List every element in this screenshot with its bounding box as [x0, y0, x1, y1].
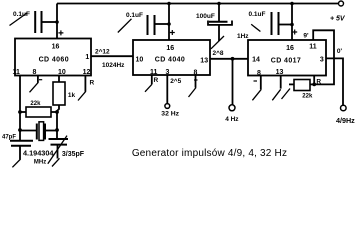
wire pin16 U3 — [291, 4, 293, 41]
svg-text:MHz: MHz — [34, 160, 46, 166]
node rail C3 electrolytic — [217, 2, 221, 6]
svg-text:2^5: 2^5 — [170, 77, 181, 85]
capacitor C5 47pF — [10, 140, 33, 142]
wire U2 pin3 to 32Hz — [166, 75, 168, 104]
node C2 junction — [167, 22, 171, 26]
capacitor C1 0.1uF — [34, 11, 36, 33]
svg-text:0': 0' — [337, 48, 343, 55]
svg-text:R: R — [90, 80, 95, 87]
plus mark U3 supply — [292, 30, 297, 35]
svg-text:4 Hz: 4 Hz — [225, 116, 239, 123]
wire U1 pin10 stub — [58, 76, 60, 83]
IC U1 CD4060 — [15, 39, 91, 76]
svg-text:10: 10 — [136, 57, 144, 64]
svg-text:16: 16 — [286, 45, 294, 52]
svg-text:1Hz: 1Hz — [237, 33, 249, 40]
svg-text:10: 10 — [58, 69, 66, 76]
wire U2 pin13 to U3 pin14 — [210, 58, 248, 60]
svg-text:11: 11 — [12, 69, 20, 76]
svg-text:100uF: 100uF — [196, 13, 215, 20]
svg-text:8: 8 — [32, 69, 36, 76]
ground U2 pin8 — [195, 75, 197, 88]
wire R1 bottom lead — [57, 105, 59, 112]
svg-text:+ 5V: + 5V — [330, 16, 346, 23]
svg-text:22k: 22k — [302, 94, 313, 100]
svg-text:14: 14 — [252, 57, 260, 64]
tap slash U2 reset — [145, 84, 152, 91]
node right crystal — [55, 128, 59, 132]
svg-text:1024Hz: 1024Hz — [102, 62, 125, 69]
svg-text:2^8: 2^8 — [213, 49, 224, 57]
tap slash U1 reset — [78, 91, 86, 100]
svg-text:13: 13 — [200, 57, 208, 64]
svg-text:3/35pF: 3/35pF — [62, 151, 85, 158]
wire U3 pin11 loop to reset — [313, 30, 334, 84]
svg-text:R: R — [154, 77, 159, 84]
svg-text:13: 13 — [276, 69, 284, 76]
capacitor C2 0.1uF — [147, 15, 149, 35]
ground C6 — [52, 158, 60, 166]
svg-text:Generator impulsów 4/9, 4, 32: Generator impulsów 4/9, 4, 32 Hz — [132, 148, 287, 159]
svg-text:2^12: 2^12 — [95, 48, 110, 56]
svg-text:12: 12 — [83, 69, 91, 76]
wire C4 to node — [280, 24, 293, 26]
node 4Hz tap — [231, 57, 235, 61]
wire pin16 U1 — [56, 4, 58, 40]
node right 22k — [55, 110, 59, 114]
wire U3 reset pin stub — [313, 76, 315, 85]
plus mark U2 supply — [170, 30, 175, 35]
svg-text:1k: 1k — [68, 92, 76, 99]
capacitor C6 trimmer 3/35pF — [49, 138, 69, 140]
node reset junction — [312, 83, 316, 87]
node left 22k — [18, 110, 22, 114]
capacitor C4 0.1uF — [271, 12, 273, 35]
svg-text:16: 16 — [52, 44, 60, 51]
ground C5 — [12, 159, 20, 167]
terminal +5V — [339, 1, 344, 6]
svg-text:CD 4040: CD 4040 — [155, 57, 185, 64]
svg-text:CD 4060: CD 4060 — [39, 57, 69, 64]
svg-text:1: 1 — [85, 54, 89, 61]
wire U1 pin1 to U2 pin10 — [91, 55, 133, 57]
capacitor C3 100uF — [218, 4, 220, 22]
svg-text:11: 11 — [309, 44, 317, 51]
wire C2 to node — [155, 23, 169, 25]
wire pin16 U2 — [168, 4, 170, 41]
node C1 junction — [55, 20, 59, 24]
IC U2 CD4040 — [133, 40, 210, 75]
svg-text:4.194304: 4.194304 — [23, 148, 54, 157]
terminal 32Hz — [165, 104, 170, 109]
resistor R1 1k — [53, 82, 65, 105]
resistor R3 22k — [294, 80, 310, 91]
svg-text:3: 3 — [320, 56, 324, 63]
wire C1 to node — [42, 21, 57, 23]
svg-text:3: 3 — [166, 69, 170, 76]
svg-text:CD 4017: CD 4017 — [271, 58, 301, 65]
IC U3 CD4017 — [248, 40, 326, 76]
ground U3 pin13 — [280, 76, 282, 89]
svg-text:0.1uF: 0.1uF — [13, 11, 30, 18]
svg-text:R: R — [316, 78, 321, 85]
terminal 4/9Hz — [341, 105, 347, 111]
svg-text:4/9Hz: 4/9Hz — [336, 116, 355, 125]
wire U1 pin12 reset stub — [84, 76, 86, 92]
terminal 4Hz — [229, 105, 235, 111]
svg-text:32 Hz: 32 Hz — [161, 111, 179, 118]
wire U1 pin11 down — [19, 76, 21, 141]
ground U3 pin8 — [260, 76, 262, 90]
svg-text:47pF: 47pF — [2, 135, 16, 141]
ground U1 pin8 — [37, 76, 39, 83]
svg-text:0.1uF: 0.1uF — [249, 11, 266, 18]
svg-text:16: 16 — [166, 45, 174, 52]
wire 4Hz tap down — [232, 59, 234, 105]
wire U2 pin11 reset stub — [151, 75, 153, 84]
resistor R2 22k — [26, 107, 51, 117]
wire right branch down — [56, 112, 58, 139]
node C4 junction — [290, 23, 294, 27]
svg-text:22k: 22k — [30, 101, 41, 107]
wire +5V rail — [57, 3, 338, 5]
plus mark U1 supply — [58, 30, 63, 35]
wire U3 pin3 out — [326, 58, 343, 105]
svg-text:11: 11 — [150, 69, 158, 76]
node left crystal — [18, 128, 22, 132]
node rail U2 — [167, 2, 171, 6]
node rail U3 — [290, 2, 294, 6]
svg-text:0.1uF: 0.1uF — [126, 12, 143, 19]
crystal X1 — [20, 130, 37, 132]
svg-text:9': 9' — [303, 32, 309, 39]
